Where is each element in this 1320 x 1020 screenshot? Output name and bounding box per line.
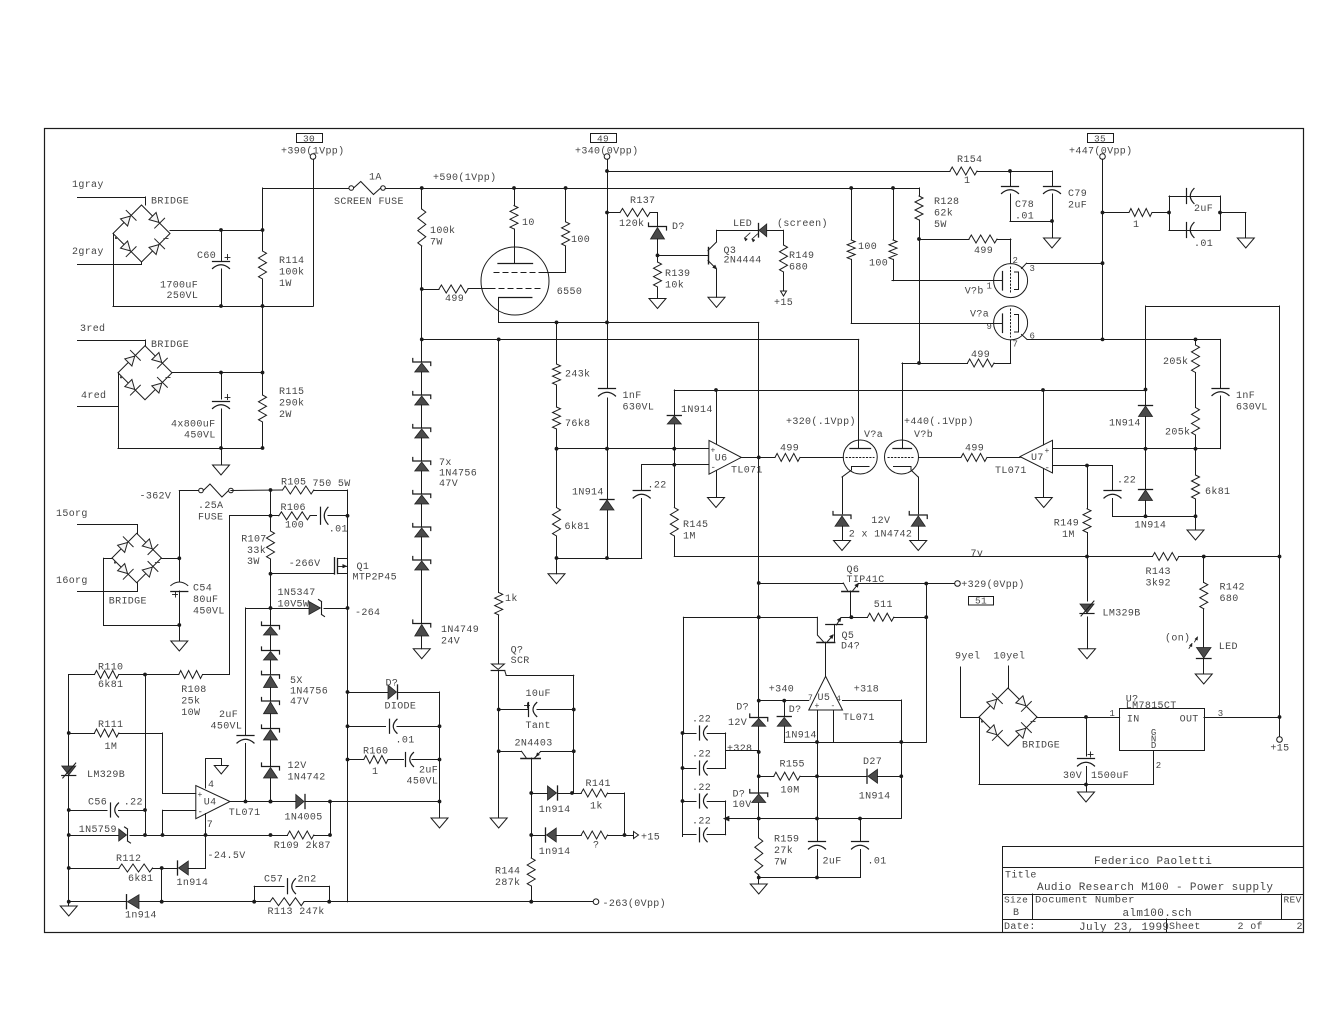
svg-text:D?: D? [733,790,746,801]
svg-text:630VL: 630VL [1236,403,1268,414]
svg-text:R108: R108 [181,685,206,696]
svg-text:R144: R144 [495,867,520,878]
svg-text:.01: .01 [868,857,887,868]
svg-text:4: 4 [836,695,841,704]
svg-text:TL071: TL071 [229,808,261,819]
svg-text:12V: 12V [288,761,307,772]
svg-text:2N4403: 2N4403 [515,739,553,750]
svg-text:499: 499 [974,246,993,257]
svg-text:499: 499 [971,350,990,361]
svg-text:1N5759: 1N5759 [79,825,117,836]
svg-text:R155: R155 [780,760,805,771]
svg-text:V?b: V?b [965,286,984,298]
svg-text:12V: 12V [728,718,747,729]
svg-text:1M: 1M [1062,530,1075,541]
svg-text:+: + [198,791,203,800]
svg-text:+318: +318 [854,685,879,696]
svg-text:12V: 12V [871,516,890,527]
svg-text:.22: .22 [124,798,143,809]
svg-text:D?: D? [672,222,685,233]
svg-text:5W: 5W [934,220,947,231]
svg-text:(screen): (screen) [777,218,828,230]
svg-text:LM329B: LM329B [87,770,125,781]
svg-text:499: 499 [780,444,799,455]
svg-text:1M: 1M [105,742,118,753]
svg-text:R137: R137 [630,196,655,207]
svg-text:1700uF: 1700uF [160,281,198,292]
svg-text:Q5: Q5 [842,631,855,642]
svg-text:2uF: 2uF [823,857,842,868]
svg-text:R115: R115 [279,387,304,398]
svg-text:+440(.1Vpp): +440(.1Vpp) [904,416,974,428]
svg-text:4red: 4red [81,390,106,402]
svg-text:SCR: SCR [511,656,530,667]
svg-text:2n2: 2n2 [298,875,317,886]
svg-text:1N914: 1N914 [1135,521,1167,532]
svg-text:450VL: 450VL [193,607,225,618]
svg-text:2N4444: 2N4444 [724,256,762,267]
svg-text:Federico Paoletti: Federico Paoletti [1094,856,1212,868]
svg-text:+15: +15 [1270,744,1289,755]
svg-text:3k92: 3k92 [1146,578,1171,590]
svg-text:35: 35 [1094,134,1106,145]
svg-text:1N914: 1N914 [859,792,891,803]
svg-text:R111: R111 [98,720,123,731]
svg-text:V?a: V?a [970,310,989,321]
svg-text:R139: R139 [665,269,690,280]
svg-text:15org: 15org [56,509,88,520]
svg-text:BRIDGE: BRIDGE [109,597,147,608]
svg-text:10k: 10k [665,280,684,292]
svg-text:+590(1Vpp): +590(1Vpp) [433,172,497,184]
svg-text:4: 4 [208,780,214,791]
svg-text:9yel: 9yel [955,651,980,663]
svg-text:49: 49 [597,134,609,145]
svg-text:V?b: V?b [914,429,933,441]
svg-text:33k: 33k [247,545,266,557]
svg-text:80uF: 80uF [193,595,218,606]
svg-text:-: - [198,808,204,818]
svg-text:499: 499 [965,444,984,455]
svg-text:62k: 62k [934,208,953,220]
svg-text:Title: Title [1005,870,1037,882]
svg-text:TL071: TL071 [843,713,875,724]
svg-text:2 x 1N4742: 2 x 1N4742 [849,530,913,541]
svg-text:2: 2 [1156,761,1162,771]
svg-text:R141: R141 [586,779,611,790]
svg-text:July 23, 1999: July 23, 1999 [1079,922,1169,934]
svg-text:R149: R149 [1054,519,1079,530]
svg-text:6k81: 6k81 [565,521,590,533]
svg-text:3: 3 [1030,264,1036,274]
svg-text:2uF: 2uF [219,710,238,721]
svg-text:MTP2P45: MTP2P45 [353,573,397,584]
svg-text:10yel: 10yel [994,651,1026,663]
svg-text:30: 30 [303,134,315,145]
svg-text:REV: REV [1284,895,1302,906]
svg-text:+15: +15 [774,298,793,309]
svg-text:BRIDGE: BRIDGE [1022,741,1060,752]
svg-text:76k8: 76k8 [565,418,590,430]
svg-text:205k: 205k [1163,356,1188,368]
svg-text:27k: 27k [774,845,793,857]
svg-text:.22: .22 [692,783,711,794]
svg-text:450VL: 450VL [407,777,439,788]
svg-text:1N914: 1N914 [572,488,604,499]
svg-text:1N5347: 1N5347 [278,588,316,599]
svg-text:D?: D? [386,679,399,690]
svg-text:R114: R114 [279,256,304,267]
svg-text:450VL: 450VL [184,431,216,442]
svg-text:120k: 120k [619,218,644,230]
svg-text:-263(0Vpp): -263(0Vpp) [603,898,667,910]
svg-text:499: 499 [445,294,464,305]
svg-text:6k81: 6k81 [1205,486,1230,498]
svg-text:1n914: 1n914 [539,805,571,816]
svg-text:R160: R160 [363,747,388,758]
svg-text:D: D [1151,741,1157,751]
svg-text:R159: R159 [774,835,799,846]
svg-text:5X: 5X [290,676,303,687]
svg-text:630VL: 630VL [623,403,655,414]
svg-text:750 5W: 750 5W [313,479,351,490]
svg-text:100: 100 [858,242,877,253]
svg-text:-264: -264 [355,608,380,619]
svg-text:2uF: 2uF [419,766,438,777]
svg-text:1nF: 1nF [623,391,642,402]
svg-text:.22: .22 [692,715,711,726]
svg-text:1: 1 [1109,709,1115,719]
svg-text:Date:: Date: [1004,922,1036,933]
svg-text:Document Number: Document Number [1035,895,1135,907]
svg-text:.22: .22 [1117,476,1136,487]
svg-text:Q?: Q? [511,646,524,657]
svg-text:1N4756: 1N4756 [439,469,477,480]
svg-text:B: B [1013,908,1019,919]
svg-text:+15: +15 [641,833,660,844]
svg-text:BRIDGE: BRIDGE [151,340,189,351]
svg-text:1N4005: 1N4005 [285,813,323,824]
svg-text:10V: 10V [733,800,752,811]
svg-text:250VL: 250VL [167,291,199,302]
svg-text:R128: R128 [934,197,959,208]
svg-text:R110: R110 [98,663,123,674]
svg-text:(on): (on) [1165,633,1190,645]
svg-text:6k81: 6k81 [98,679,123,691]
svg-text:LM329B: LM329B [1103,609,1141,620]
svg-text:C54: C54 [193,584,212,595]
svg-text:IN: IN [1127,714,1140,725]
svg-text:7W: 7W [430,238,443,249]
svg-text:3W: 3W [247,557,260,568]
svg-text:100k: 100k [430,225,455,237]
svg-text:alm100.sch: alm100.sch [1123,908,1193,920]
svg-text:Sheet: Sheet [1169,921,1201,933]
svg-text:D4?: D4? [841,642,860,653]
svg-text:+328: +328 [727,744,752,755]
svg-text:1gray: 1gray [72,180,104,191]
svg-text:1k: 1k [590,801,603,813]
svg-text:205k: 205k [1165,427,1190,439]
svg-text:2: 2 [1013,256,1019,266]
svg-text:C57: C57 [264,875,283,886]
svg-text:7: 7 [207,820,213,831]
svg-text:V?a: V?a [864,430,883,441]
svg-text:2gray: 2gray [72,247,104,258]
svg-text:2W: 2W [279,410,292,421]
svg-text:100: 100 [285,521,304,532]
svg-text:10uF: 10uF [526,689,551,700]
svg-text:1: 1 [372,767,378,778]
svg-text:7x: 7x [439,458,452,469]
svg-text:?: ? [593,841,599,852]
svg-text:7: 7 [808,694,813,703]
svg-text:1N4742: 1N4742 [288,773,326,784]
svg-text:R143: R143 [1146,567,1171,578]
svg-text:D?: D? [736,703,749,714]
svg-text:R113 247k: R113 247k [268,906,325,918]
svg-text:1N914: 1N914 [1109,419,1141,430]
svg-text:6550: 6550 [557,287,582,298]
svg-text:C78: C78 [1015,200,1034,211]
svg-text:30V: 30V [1063,771,1082,782]
svg-text:1M: 1M [683,532,696,543]
svg-text:10M: 10M [781,786,800,797]
svg-text:1N914: 1N914 [785,731,817,742]
svg-text:-362V: -362V [140,492,172,503]
svg-text:.01: .01 [1194,239,1213,250]
svg-text:2: 2 [1297,922,1303,933]
svg-text:D27: D27 [863,757,882,768]
svg-text:+340: +340 [769,685,794,696]
svg-text:.25A: .25A [198,501,223,512]
svg-text:4x800uF: 4x800uF [171,420,215,431]
svg-text:287k: 287k [495,877,520,889]
svg-text:R109 2k87: R109 2k87 [274,840,331,852]
svg-text:Size: Size [1004,895,1028,906]
svg-text:+: + [1045,447,1050,456]
svg-text:7v: 7v [971,549,984,560]
svg-text:1: 1 [1133,220,1139,231]
svg-text:R154: R154 [957,155,982,166]
svg-text:680: 680 [789,263,808,274]
svg-text:1k: 1k [505,593,518,605]
svg-text:R105: R105 [281,478,306,489]
svg-text:51: 51 [975,596,987,607]
svg-text:290k: 290k [279,398,304,410]
svg-text:C56: C56 [88,798,107,809]
svg-text:2uF: 2uF [1194,204,1213,215]
svg-text:100k: 100k [279,267,304,279]
svg-text:+: + [711,447,716,456]
svg-text:1: 1 [987,282,993,292]
svg-text:2uF: 2uF [1068,201,1087,212]
svg-text:-: - [1045,464,1051,474]
svg-text:LM7815CT: LM7815CT [1126,701,1177,712]
svg-text:D?: D? [789,705,802,716]
svg-text:243k: 243k [565,369,590,381]
svg-text:24V: 24V [441,637,460,648]
svg-text:.22: .22 [648,481,667,492]
svg-text:47V: 47V [290,697,309,708]
svg-text:1N4756: 1N4756 [290,687,328,698]
svg-text:-24.5V: -24.5V [208,851,246,862]
svg-text:+320(.1Vpp): +320(.1Vpp) [786,416,856,428]
svg-text:.01: .01 [396,736,415,747]
svg-text:450VL: 450VL [211,722,243,733]
svg-text:C60: C60 [197,251,216,262]
svg-text:25k: 25k [181,696,200,708]
svg-text:6k81: 6k81 [128,873,153,885]
svg-text:7W: 7W [774,858,787,869]
svg-text:C79: C79 [1068,189,1087,200]
svg-text:Q1: Q1 [357,562,370,573]
svg-text:TL071: TL071 [995,466,1027,477]
svg-text:-266V: -266V [289,559,321,570]
svg-text:Audio Research M100 - Power su: Audio Research M100 - Power supply [1037,882,1273,894]
svg-text:LED: LED [733,219,752,230]
svg-text:+329(0Vpp): +329(0Vpp) [961,579,1025,591]
svg-text:-: - [711,463,717,473]
svg-text:10W: 10W [181,708,200,719]
svg-text:LED: LED [1219,642,1238,653]
svg-text:1: 1 [964,176,970,187]
svg-text:100: 100 [571,235,590,246]
svg-text:1W: 1W [279,279,292,290]
svg-text:U6: U6 [715,454,728,465]
svg-text:16org: 16org [56,576,88,587]
svg-text:1N914: 1N914 [681,405,713,416]
svg-text:R145: R145 [683,520,708,531]
svg-text:.22: .22 [692,817,711,828]
svg-text:.01: .01 [329,525,348,536]
svg-text:2 of: 2 of [1238,921,1263,933]
svg-text:Tant: Tant [526,721,551,732]
svg-text:R142: R142 [1220,583,1245,594]
svg-text:R112: R112 [116,854,141,865]
svg-text:.22: .22 [692,750,711,761]
svg-text:R149: R149 [789,251,814,262]
svg-text:680: 680 [1220,594,1239,605]
svg-text:3red: 3red [80,323,105,335]
svg-text:.01: .01 [1015,212,1034,223]
svg-text:47V: 47V [439,479,458,490]
svg-text:U4: U4 [204,798,217,809]
svg-text:1N4749: 1N4749 [441,625,479,636]
svg-text:1500uF: 1500uF [1091,771,1129,782]
svg-text:100: 100 [869,259,888,270]
svg-text:10: 10 [522,218,535,229]
svg-text:BRIDGE: BRIDGE [151,197,189,208]
svg-text:U7: U7 [1031,453,1044,464]
svg-text:OUT: OUT [1180,714,1199,725]
svg-text:1n914: 1n914 [177,878,209,889]
svg-text:SCREEN FUSE: SCREEN FUSE [334,197,404,208]
svg-text:511: 511 [874,600,893,611]
svg-text:R107: R107 [241,535,266,546]
svg-text:1nF: 1nF [1236,391,1255,402]
svg-text:1n914: 1n914 [125,911,157,922]
svg-text:1A: 1A [369,173,382,184]
svg-text:DIODE: DIODE [385,702,417,713]
svg-text:FUSE: FUSE [198,513,223,524]
svg-text:7: 7 [1013,340,1019,350]
svg-text:R106: R106 [281,503,306,514]
svg-text:1n914: 1n914 [539,847,571,858]
svg-text:TIP41C: TIP41C [847,575,885,586]
